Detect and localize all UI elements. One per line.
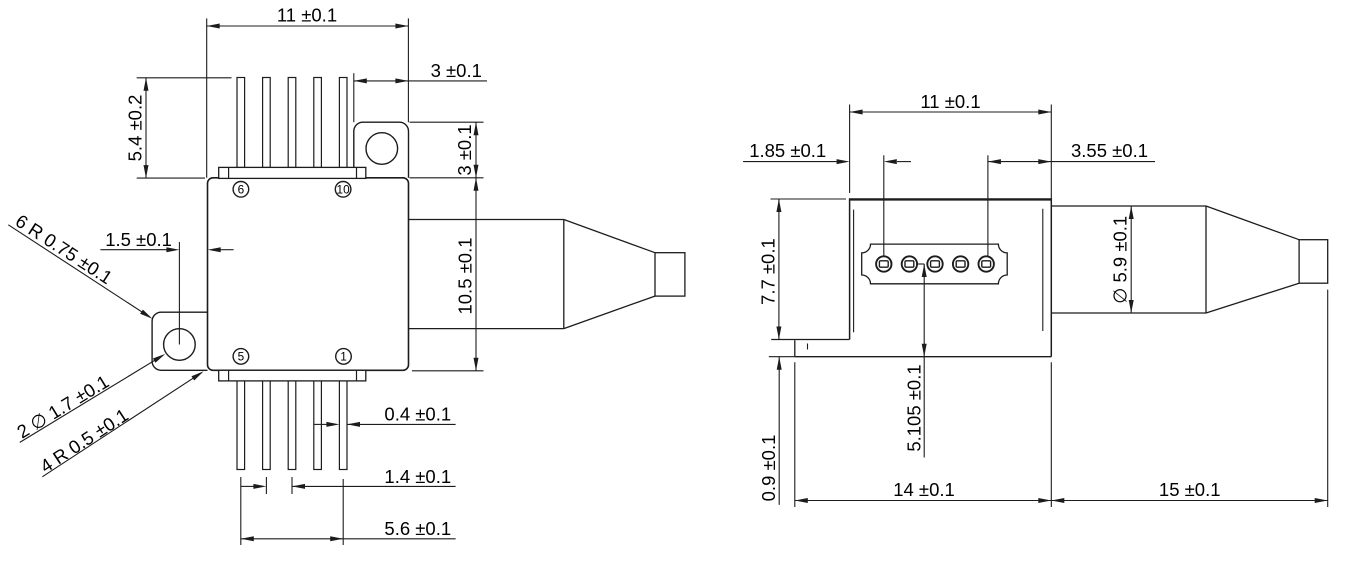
connector pins 1-5 (end view) <box>876 256 891 271</box>
weld tick on flange <box>807 344 809 350</box>
svg-text:5.6 ±0.1: 5.6 ±0.1 <box>384 518 451 539</box>
leader 2 oe 1.7 +-0.1 (tab holes) <box>20 355 163 442</box>
dimension 3 +-0.1 (tab width) <box>353 73 355 122</box>
svg-text:5: 5 <box>238 349 245 363</box>
dimension 11 +-0.1 (left view top) <box>206 18 208 177</box>
pin number 1 <box>336 349 352 365</box>
dimension 0.9 +-0.1 (flange thickness) <box>769 356 795 358</box>
dimension 5.6 +-0.1 (pin span) <box>240 477 242 545</box>
barrel nose (side view) <box>1299 240 1328 284</box>
tab hole top-right (oe 1.7) <box>366 133 398 165</box>
dimension 15 +-0.1 (barrel length) <box>1327 290 1329 507</box>
lens barrel (side view) <box>1051 205 1206 207</box>
dimension 7.7 +-0.1 (body height side) <box>771 198 847 200</box>
dimension 5.4 +-0.2 (pin length) <box>137 77 232 79</box>
dimension 1.4 +-0.1 (pin pitch) <box>265 477 267 494</box>
package body (side view) <box>850 199 1052 357</box>
svg-text:0.9 ±0.1: 0.9 ±0.1 <box>758 435 779 502</box>
barrel nose (left view) <box>655 253 685 296</box>
dimension 14 +-0.1 (flange length) <box>794 362 796 507</box>
baseplate flange <box>771 339 849 341</box>
svg-text:∅ 5.9 ±0.1: ∅ 5.9 ±0.1 <box>1110 216 1131 304</box>
top pin shoulder plate <box>219 167 366 178</box>
mounting tab bottom-left <box>152 312 207 370</box>
pin number 5 <box>233 349 249 365</box>
svg-text:11 ±0.1: 11 ±0.1 <box>277 5 337 26</box>
pin number 6 <box>233 182 249 198</box>
lens barrel (left view) <box>409 219 564 221</box>
pin number 10 <box>335 182 351 198</box>
dimension oe 5.9 +-0.1 (barrel diameter) <box>1130 206 1132 313</box>
svg-text:6: 6 <box>238 182 245 196</box>
svg-text:0.4 ±0.1: 0.4 ±0.1 <box>384 404 451 425</box>
svg-text:1: 1 <box>340 349 347 363</box>
svg-text:11 ±0.1: 11 ±0.1 <box>920 91 980 112</box>
dimension 5.105 +-0.1 (pin line to flange bottom) <box>917 263 924 265</box>
svg-text:1.85 ±0.1: 1.85 ±0.1 <box>749 140 826 161</box>
dimension 0.4 +-0.1 (pin width) <box>314 423 328 425</box>
inner edge right <box>1042 209 1044 331</box>
svg-text:3 ±0.1: 3 ±0.1 <box>454 124 475 175</box>
dimension 3 +-0.1 (tab height, right side) <box>410 121 484 123</box>
bottom pin shoulder plate <box>219 370 366 381</box>
tab hole bottom-left (oe 1.7) <box>164 329 196 361</box>
svg-text:3 ±0.1: 3 ±0.1 <box>431 60 482 81</box>
svg-text:1.5 ±0.1: 1.5 ±0.1 <box>105 229 172 250</box>
package body (left view) <box>208 178 409 370</box>
leader 6 R 0.75 +-0.1 (tab corner radii) <box>8 225 150 317</box>
inner edge left <box>853 210 855 333</box>
dimension 11 +-0.1 (side view top) <box>849 105 851 194</box>
svg-text:10.5 ±0.1: 10.5 ±0.1 <box>455 237 476 314</box>
svg-text:3.55 ±0.1: 3.55 ±0.1 <box>1071 140 1148 161</box>
svg-text:7.7 ±0.1: 7.7 ±0.1 <box>758 238 779 305</box>
bottom pins 1..5 <box>237 381 245 470</box>
top pins 6..10 <box>237 78 245 168</box>
svg-text:1.4 ±0.1: 1.4 ±0.1 <box>384 466 451 487</box>
body top edge (thick) <box>850 199 1052 201</box>
svg-text:5.105 ±0.1: 5.105 ±0.1 <box>904 364 925 451</box>
leader 4 R 0.5 +-0.1 (body corner radii) <box>42 373 201 477</box>
svg-text:14 ±0.1: 14 ±0.1 <box>893 479 955 500</box>
svg-text:5.4 ±0.2: 5.4 ±0.2 <box>125 95 146 162</box>
svg-text:15 ±0.1: 15 ±0.1 <box>1159 479 1221 500</box>
dimension 10.5 +-0.1 (body height) <box>412 370 484 372</box>
svg-text:10: 10 <box>337 182 351 196</box>
dimension 3.55 +-0.1 (pin 5 to body edge) <box>987 155 989 256</box>
feed-through connector insulator <box>862 244 1008 284</box>
mounting tab top-right <box>354 122 409 178</box>
